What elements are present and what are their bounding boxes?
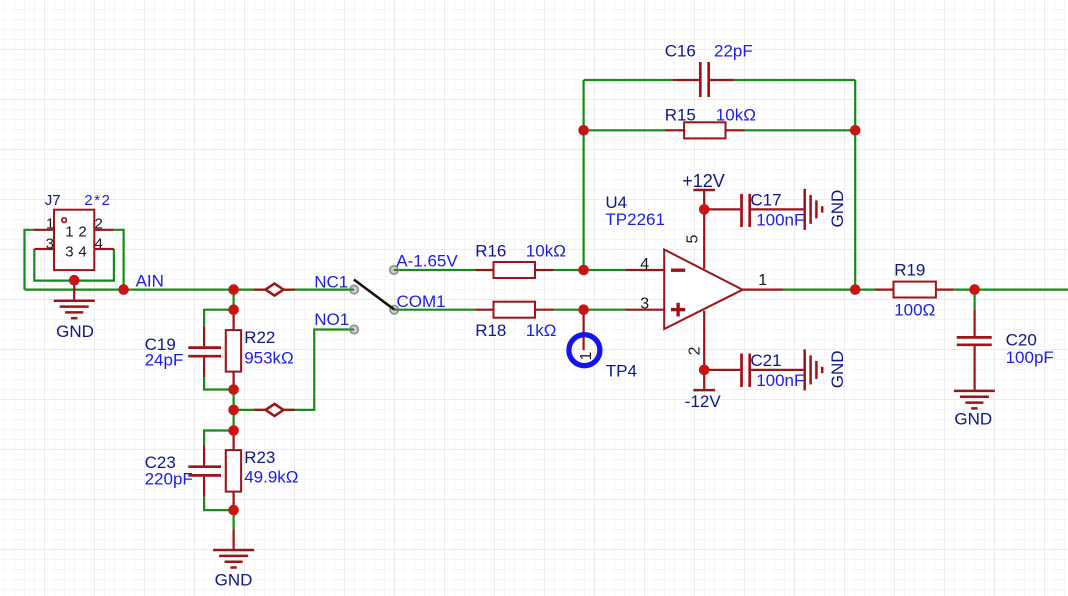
svg-text:1kΩ: 1kΩ	[526, 321, 557, 340]
svg-text:TP2261: TP2261	[605, 210, 665, 229]
svg-text:C21: C21	[750, 351, 781, 370]
svg-text:3: 3	[640, 296, 649, 313]
svg-text:4: 4	[95, 235, 103, 252]
svg-text:NC1: NC1	[314, 272, 348, 291]
svg-text:220pF: 220pF	[145, 470, 193, 489]
svg-text:COM1: COM1	[397, 292, 446, 311]
svg-text:100pF: 100pF	[1006, 348, 1054, 367]
svg-text:4: 4	[640, 256, 649, 273]
svg-text:1: 1	[758, 272, 767, 289]
svg-text:3: 3	[65, 244, 73, 261]
svg-text:953kΩ: 953kΩ	[244, 349, 294, 368]
svg-text:C16: C16	[665, 42, 696, 61]
svg-text:4: 4	[78, 244, 86, 261]
svg-text:-12V: -12V	[685, 392, 722, 411]
svg-text:C20: C20	[1006, 331, 1037, 350]
svg-text:R22: R22	[244, 328, 275, 347]
svg-text:100nF: 100nF	[756, 371, 804, 390]
svg-text:22pF: 22pF	[714, 42, 753, 61]
svg-text:TP4: TP4	[606, 362, 637, 381]
svg-text:2: 2	[95, 215, 103, 232]
svg-text:5: 5	[684, 235, 701, 244]
svg-text:GND: GND	[954, 410, 992, 429]
svg-text:+12V: +12V	[682, 171, 725, 191]
svg-text:R18: R18	[475, 321, 506, 340]
svg-text:2*2: 2*2	[84, 192, 111, 209]
svg-text:100nF: 100nF	[756, 211, 804, 230]
svg-text:GND: GND	[215, 570, 253, 589]
svg-text:A-1.65V: A-1.65V	[396, 251, 458, 270]
svg-text:J7: J7	[45, 192, 61, 209]
svg-text:3: 3	[46, 235, 54, 252]
svg-text:2: 2	[78, 223, 86, 240]
svg-text:R16: R16	[475, 241, 506, 260]
svg-text:AIN: AIN	[136, 272, 164, 291]
svg-text:GND: GND	[828, 190, 847, 228]
svg-text:1: 1	[65, 223, 73, 240]
svg-text:C17: C17	[750, 190, 781, 209]
svg-text:R23: R23	[244, 448, 275, 467]
svg-text:NO1: NO1	[314, 310, 349, 329]
svg-text:100Ω: 100Ω	[894, 301, 935, 320]
svg-text:1: 1	[46, 215, 54, 232]
svg-text:1: 1	[578, 352, 595, 361]
svg-text:GND: GND	[56, 322, 94, 341]
svg-text:24pF: 24pF	[145, 351, 184, 370]
svg-text:R15: R15	[665, 105, 696, 124]
svg-text:49.9kΩ: 49.9kΩ	[244, 467, 298, 486]
svg-text:10kΩ: 10kΩ	[526, 241, 566, 260]
svg-text:GND: GND	[828, 350, 847, 388]
svg-text:10kΩ: 10kΩ	[716, 105, 756, 124]
svg-text:R19: R19	[894, 261, 925, 280]
svg-text:2: 2	[686, 346, 703, 355]
